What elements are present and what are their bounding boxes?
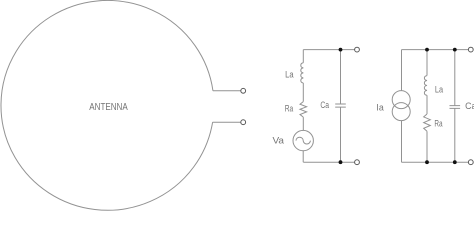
wire between La and Ra [302, 83, 304, 102]
wire left branch upper [302, 50, 304, 63]
capacitor Ca (middle circuit) [335, 104, 346, 107]
capacitor Ca (right circuit) [450, 106, 461, 109]
resistor Ra (middle circuit) [300, 102, 307, 118]
wire capacitor branch upper (middle circuit) [340, 50, 342, 104]
svg-text:La: La [435, 85, 443, 95]
wire right circuit top [402, 49, 469, 51]
current source Ia [392, 91, 410, 109]
svg-text:Va: Va [273, 136, 285, 146]
wire current source branch lower [401, 121, 403, 163]
wire between La and Ra (right circuit) [426, 95, 428, 114]
wire capacitor branch lower (middle circuit) [340, 107, 342, 162]
wire capacitor branch lower (right circuit) [454, 108, 456, 162]
wire middle branch upper (right circuit) [426, 50, 428, 76]
wire middle circuit bottom [303, 161, 354, 163]
sine wave inside Va [296, 137, 310, 144]
antenna loop [1, 0, 213, 210]
svg-text:ANTENNA: ANTENNA [89, 102, 128, 113]
wire below Va [302, 151, 304, 162]
inductor La (right circuit) [424, 76, 427, 96]
wire right circuit bottom [402, 161, 469, 163]
svg-text:Ca: Ca [465, 101, 474, 111]
terminal middle bottom [355, 160, 360, 165]
svg-text:Ia: Ia [376, 102, 383, 112]
terminal right circuit bottom [468, 160, 473, 165]
terminal antenna bottom [241, 120, 246, 125]
wire between Ra and Va [302, 117, 304, 130]
wire antenna top lead [213, 90, 241, 92]
svg-text:Ra: Ra [434, 118, 442, 128]
terminal antenna top [241, 88, 246, 93]
svg-text:Ca: Ca [320, 100, 329, 110]
junction middle top [339, 48, 343, 52]
svg-text:La: La [285, 70, 294, 80]
source Va (middle circuit) [293, 130, 313, 150]
svg-text:Ra: Ra [285, 103, 294, 113]
wire capacitor branch upper (right circuit) [454, 50, 456, 106]
terminal right circuit top [468, 47, 473, 52]
junction right circuit top right [453, 48, 457, 52]
junction right circuit bottom right [453, 160, 457, 164]
resistor Ra (right circuit) [424, 114, 431, 131]
wire below Ra (right circuit) [426, 131, 428, 162]
junction middle bottom [339, 160, 343, 164]
wire middle circuit top [303, 49, 354, 51]
wire current source branch upper [401, 50, 403, 91]
wire antenna bottom lead [213, 121, 241, 123]
junction right circuit top left [425, 48, 429, 52]
junction right circuit bottom left [425, 160, 429, 164]
inductor La (middle circuit) [301, 63, 304, 83]
terminal middle top [355, 47, 360, 52]
